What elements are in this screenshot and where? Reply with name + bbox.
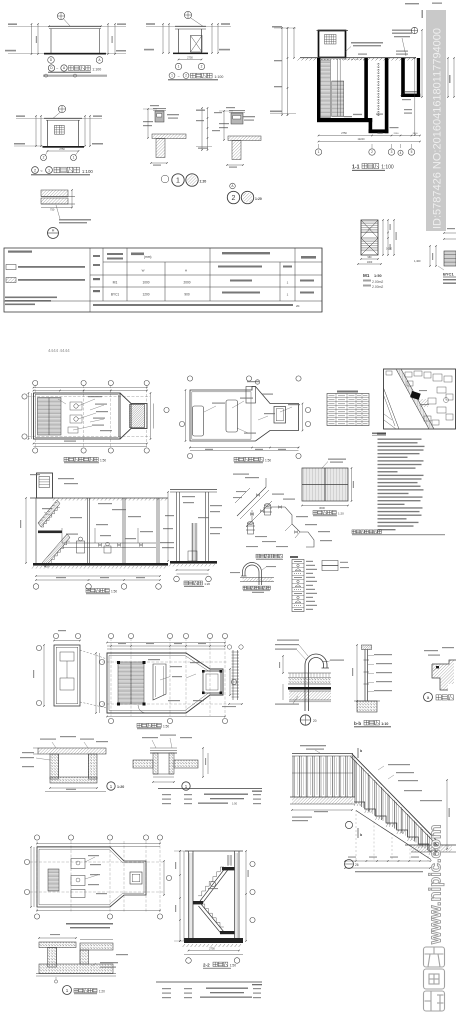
left slab [133,760,153,768]
dims above [39,937,76,939]
title A-A section [86,589,90,593]
svg-text:5: 5 [411,150,413,154]
coping blob (grey) [155,111,164,122]
axis circles [36,645,41,650]
right floor slab [401,94,420,97]
axis circle A [96,57,103,64]
svg-text:3500: 3500 [377,132,383,135]
stair steps [354,802,440,851]
axis grid leaders [318,144,320,148]
axis circle 5 [408,149,414,155]
leader texts [167,114,179,115]
wall axis4 [401,58,405,97]
svg-text:W: W [142,269,145,273]
ramp slot parallelogram [153,664,166,700]
left dim [356,645,358,701]
pit bottom [50,777,97,783]
stringer line [356,811,431,860]
title axonometric [256,554,260,558]
door leaf with X brace [191,36,203,53]
title pump room plan [64,457,68,461]
equipment box right [203,671,221,693]
hatch door arc [138,705,146,713]
penthouse tower [37,473,53,498]
gooseneck pipe (bends right, opening down) [305,654,327,711]
extension lines to dim [355,810,357,861]
detail mark circle [58,105,65,112]
projection lines to main plan [80,650,107,659]
pit left wall [369,118,373,133]
svg-text:BYC1: BYC1 [111,293,120,297]
svg-text:3: 3 [391,150,393,154]
svg-text:2.00m2: 2.00m2 [372,285,383,289]
leader texts right [374,654,392,655]
horizontal handrail [292,753,353,755]
svg-text:26: 26 [355,863,359,867]
leader text right of cap [330,660,344,661]
right dims [211,24,213,53]
column D [50,29,52,53]
fake CJK watermark chars [424,947,445,967]
water tank [193,406,204,436]
outer outline [190,387,299,442]
pumps [77,541,85,553]
steps zigzag lower [201,904,224,927]
left small dims [282,656,284,673]
stair flight 2 [332,81,344,117]
axis circle 1 [175,63,181,69]
svg-text:1:20: 1:20 [99,990,105,994]
dims [190,447,299,449]
section 2-2 stairwell [174,850,255,968]
dims sides [30,847,32,907]
axis circles [33,584,39,590]
bottom slab (thick) [317,118,372,122]
right wall [234,851,236,941]
dims left/right [95,653,97,713]
bottom dim 2750 [179,59,202,61]
svg-text:2000: 2000 [183,281,190,285]
designator circles [345,821,352,828]
balusters horizontal run [292,756,294,797]
louver bands [361,221,378,223]
svg-text:2: 2 [371,150,373,154]
legend (tujian) table [290,556,349,612]
svg-text:2: 2 [43,156,45,160]
stair landing slab [38,531,62,534]
axis circle 3 [388,149,394,155]
lower pump room plan [24,835,171,919]
axis circles [34,835,39,840]
site location plan [372,369,456,436]
svg-text:1000: 1000 [367,261,373,264]
BYC1 window elevation [414,228,456,284]
svg-text:1:50: 1:50 [265,459,271,463]
detail designator circles group 1 [161,174,206,186]
floor dim [292,809,352,811]
subject building filled [410,391,421,400]
svg-text:2: 2 [34,168,36,172]
small level mark [54,980,57,983]
svg-text:1-1: 1-1 [352,165,360,171]
mid title block [158,789,262,806]
wall left [47,120,49,146]
wall below hatched [232,141,241,160]
svg-text:2750: 2750 [341,132,347,135]
note above (two lines) [66,923,113,925]
dims bottom [36,575,160,577]
stair steps zigzag 1 [41,507,60,527]
svg-text:2750: 2750 [187,56,193,60]
bottom slab [184,938,243,943]
axis circle 2 [41,155,47,161]
parapet coping detail [41,189,91,238]
wall middle (thick) [364,58,368,122]
right dims + axis [245,851,247,941]
roof slab [175,25,206,27]
pipes [62,542,156,544]
svg-text:1:20: 1:20 [200,180,207,184]
wall below hatched [156,139,165,158]
door frame [361,220,378,255]
pump room roof plan [179,376,310,463]
detail circle H [48,228,59,239]
steps zigzag upper [198,867,224,896]
top edge [185,850,243,852]
note row [93,304,293,306]
svg-text:960: 960 [368,256,373,259]
title B-B section [184,581,188,585]
axis grid [110,638,112,716]
leader texts [233,474,249,475]
dims top [107,642,225,644]
inner lines [58,754,60,777]
wall detail 3 [219,107,261,168]
ground line with hatch [300,57,416,59]
left dims [179,851,181,941]
detail mark circle [57,12,64,19]
left dim lines [31,24,33,54]
roof slab [170,489,217,491]
walls [176,492,178,561]
svg-text:BYC1: BYC1 [443,272,454,277]
axis circles bottom [33,448,38,453]
valves [256,494,259,497]
svg-text:3600: 3600 [319,506,325,510]
road hatch strip [396,369,434,429]
section A-A pump room [20,473,174,594]
penthouse roof slab [317,30,349,32]
axis circle D [48,57,55,64]
svg-text:1: 1 [171,74,173,78]
svg-text:1:20: 1:20 [204,582,210,586]
svg-text:1: 1 [178,65,180,69]
wall right [78,120,80,146]
svg-text:1:20: 1:20 [338,512,344,516]
parapet cap [229,110,245,112]
dims below [50,787,97,789]
pit bottom slab [369,129,389,133]
right dims [150,393,152,439]
svg-text:1:50: 1:50 [232,802,238,806]
dims bottom [37,910,160,912]
dims [223,111,225,140]
right leader texts [388,764,410,765]
equipment schedule title [352,530,356,534]
floor band [292,797,353,804]
tread hatch [354,802,356,806]
svg-text:1:50: 1:50 [111,590,117,594]
bottom slab [39,964,113,974]
dims bottom [107,716,225,718]
pumps and equipment [74,404,78,408]
svg-text:1:100: 1:100 [214,75,223,79]
right dim chains [382,220,384,255]
detail designator circles group 2 [227,183,262,204]
svg-text:0.200: 0.200 [386,248,393,251]
sump pit U detail [20,736,124,792]
structural slab hatched [289,691,331,700]
subtitle note [43,75,107,77]
designator circle [107,782,115,790]
dims top [37,843,160,845]
section B-B tank room [163,490,222,587]
svg-text:1,400: 1,400 [414,259,421,263]
dim chain between details [196,107,222,151]
header texts [8,251,32,253]
section flags b [357,748,359,758]
svg-text:M1: M1 [363,273,370,278]
dims right [202,748,204,777]
door window schedule table [4,248,322,312]
title 2-1 elevation [32,167,39,174]
slab band hatched [152,134,186,139]
svg-text:4444 4444: 4444 4444 [48,348,70,353]
leader spider lines [78,399,95,406]
svg-text:~: ~ [40,168,43,173]
roof insulation band (dotted) [288,672,331,674]
leaders [266,566,276,567]
outer wall outline [37,847,146,907]
leader texts top-left [277,640,299,641]
leader texts above [142,737,158,738]
detail mark circle [184,11,191,18]
piping axonometric diagram [233,474,332,560]
stair flight upper [200,867,226,901]
wall right outer [417,58,420,97]
step corner [432,660,456,664]
louver annotation text [351,42,383,44]
louver duct hatched [130,405,145,428]
inner pit lines [56,948,58,965]
X braces [361,220,378,238]
elevation D-A drawing [5,12,126,77]
bottom dim [48,150,79,152]
table verticals [89,248,91,312]
leader texts right [100,962,118,963]
left dims [35,116,37,146]
svg-text:H: H [185,269,187,273]
leader texts [182,496,195,497]
vent pipe gooseneck detail small [230,563,276,593]
column A [99,29,101,53]
grey ID watermark bar [426,10,446,231]
bottom dimension chain [319,135,421,137]
bottom dims [34,443,148,445]
pump [188,551,197,561]
handrail cap [362,645,372,650]
left wall [188,851,190,941]
ladder top right [227,855,229,866]
legend boxes left cell [6,265,16,270]
railing section b-b [352,644,392,727]
descending drain zigzag [271,507,314,547]
title [243,586,246,589]
interior leaders [210,881,215,886]
roof slab [44,117,82,119]
skylight box [274,407,286,424]
axis circles [187,376,192,381]
interior pipe with rungs [192,523,194,561]
anti-slip strip detail [424,647,456,702]
trench side plan [33,630,107,708]
svg-text:1:20: 1:20 [117,785,124,789]
bottom dims [361,258,378,260]
penthouse louver [325,35,337,45]
landing upper [222,867,235,870]
left dims [162,24,164,53]
dims below [153,781,174,783]
vent cap flange [322,667,330,669]
ground line [43,146,85,148]
bottom dims [189,950,240,952]
landing mid [193,901,203,904]
svg-text:1:50: 1:50 [100,459,106,463]
right dims [84,116,86,146]
axis circle 2 [198,63,204,69]
stair steps zigzag 2 [45,541,70,567]
vertical wall [48,948,57,968]
axis circles bottom [186,958,192,964]
stair flight lower [201,904,224,932]
svg-text:1:50: 1:50 [230,964,237,968]
svg-text:1: 1 [48,168,50,172]
svg-text:2.00m2: 2.00m2 [372,280,383,284]
svg-text:1:50: 1:50 [374,274,382,278]
M1 door elevation [357,219,397,289]
leader texts left [22,752,34,753]
svg-text:2: 2 [201,65,203,69]
svg-text:1: 1 [176,177,180,184]
svg-text:a: a [427,695,430,700]
note under stair [355,871,423,872]
trench bottom [153,773,174,775]
rooftop box [246,387,256,404]
sump pit large detail [36,923,128,995]
top-left slab [39,942,76,948]
stair left [48,869,59,891]
penthouse walls [319,31,346,58]
title 1-2 elevation [169,73,175,79]
designator circle + title [63,986,72,995]
ground strip [243,578,273,582]
wall detail 1 [143,105,186,166]
pump room floor plan [22,380,169,462]
waterproof membrane (black) [288,687,331,690]
pit right wall [89,754,98,779]
hydrant installation small table [327,391,369,426]
axis circle right [164,407,169,412]
svg-text:750: 750 [50,208,55,212]
axis circles top [33,380,38,385]
two-cell mini table [322,561,338,566]
lower landing [220,931,235,934]
leader to note [56,205,60,219]
pump 1 [263,504,272,515]
trench cover detail [133,735,208,791]
svg-text:20.: 20. [296,304,300,308]
slab band hatched [228,136,261,141]
ground line [173,53,208,55]
buildings [405,372,412,377]
trench walls [153,753,158,774]
designator circle a [424,693,433,702]
svg-text:12240: 12240 [358,138,366,141]
svg-text:2: 2 [232,195,236,202]
elevation 1-2 drawing [144,11,231,79]
stair railing elevation [290,745,456,872]
ground block hatched [357,701,377,712]
svg-text:H: H [52,229,55,233]
svg-text:2150: 2150 [394,133,400,135]
title tank cover [313,511,317,515]
bottom title block [156,982,262,998]
stair flight 1 (edge-on treads) [320,60,330,118]
area texts [363,280,371,282]
note text box [59,219,91,221]
roof slab [49,25,101,27]
svg-text:1:10: 1:10 [381,722,388,726]
designator circle [300,715,310,725]
svg-text:1: 1 [66,988,69,993]
roads diagonal [396,369,429,429]
axis circles [174,576,180,582]
sump annotation [358,54,367,55]
louver window two panes [55,125,65,134]
row M1 [93,278,100,280]
hatch under step [432,660,454,690]
svg-text:b-b: b-b [354,721,361,726]
svg-text:2: 2 [185,74,187,78]
post [364,650,366,702]
general notes text block [352,433,445,535]
axis circle 2 [369,149,375,155]
detail mark circle top-right [411,27,417,33]
svg-text:2750: 2750 [209,947,215,951]
axis circles bottom [108,718,113,723]
ground hatched strip [411,845,452,852]
interior leaders [88,855,99,856]
left dimension chain [281,28,283,115]
sloped balusters [354,760,356,803]
left dims [25,498,27,563]
right slab [174,760,198,768]
small court hatch [419,399,428,407]
svg-text:2750: 2750 [59,148,65,151]
stair flights [38,500,60,527]
cover plate [150,752,177,754]
svg-text:ID:5787426 NO:2016041618011779: ID:5787426 NO:20160416180117794000 [432,28,444,229]
